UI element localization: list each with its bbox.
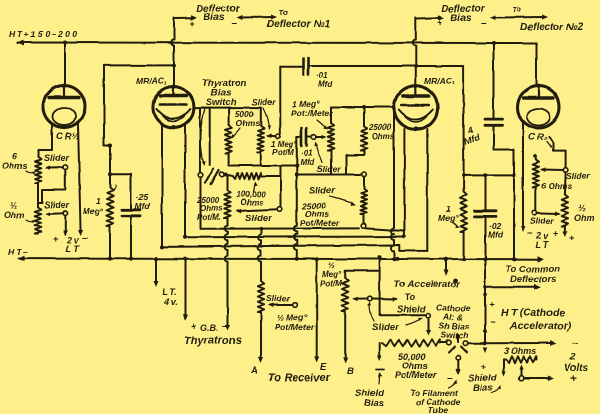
node HT junction 4Mfd bbox=[492, 41, 496, 45]
svg-text:Bias: Bias bbox=[450, 13, 472, 24]
wire to shield arrow bbox=[372, 297, 398, 302]
label Switch bbox=[204, 97, 237, 108]
wire HT+ supply rail bbox=[17, 40, 537, 46]
wire tube1 grid out bbox=[194, 108, 210, 165]
resistor 1 Meg Pot/M bbox=[258, 108, 264, 166]
label + bias2 bbox=[437, 18, 442, 28]
wire B branch bbox=[345, 271, 379, 278]
resistor 1 Meg Pot/Meter bbox=[328, 107, 334, 175]
svg-text:H T + 1 5 0 – 2 0 0: H T + 1 5 0 – 2 0 0 bbox=[9, 29, 77, 39]
wire CR2 heater jog bbox=[549, 137, 566, 168]
node 6ohm-r top bbox=[533, 154, 536, 157]
bus wire 1 bbox=[201, 228, 405, 231]
label half meg pot B bbox=[320, 261, 342, 288]
label B bbox=[347, 366, 354, 377]
label Slider B-pot bbox=[372, 322, 400, 333]
wire GB+ tap bbox=[183, 257, 188, 320]
svg-text:To Accelerator: To Accelerator bbox=[394, 279, 461, 290]
wire 3ohm out arrow bbox=[524, 376, 554, 381]
label Thyratrons bbox=[184, 335, 241, 347]
wire cath switch bottom drop bbox=[456, 360, 461, 375]
svg-text:To: To bbox=[512, 5, 521, 14]
wire 296 column bbox=[294, 137, 299, 261]
label 4 Mfd bbox=[462, 125, 481, 147]
svg-text:MR/AC₁: MR/AC₁ bbox=[424, 76, 455, 86]
label Slider halfohm-right bbox=[530, 216, 554, 226]
bus wire 3 bbox=[162, 245, 427, 251]
svg-text:Bias: Bias bbox=[203, 13, 225, 24]
label + bias1 bbox=[190, 19, 195, 29]
label Shield Bias left bbox=[355, 388, 384, 409]
wire 100k right link bbox=[261, 166, 281, 176]
capacitor .01 Mfd second bbox=[297, 128, 307, 146]
node shelf-514 bbox=[512, 173, 516, 177]
svg-text:–: – bbox=[222, 321, 228, 332]
wire cath switch right link bbox=[468, 342, 485, 344]
label Bias 2 bbox=[450, 13, 472, 24]
label 5000 Ohms bbox=[235, 109, 260, 128]
wire E tap bbox=[314, 257, 319, 363]
svg-text:MR/AC₁: MR/AC₁ bbox=[136, 76, 167, 86]
label + shield bias bbox=[481, 362, 487, 373]
svg-text:+: + bbox=[569, 233, 575, 244]
terminal slider 6ohm left bbox=[63, 165, 68, 170]
node 1meg-r top bbox=[462, 173, 466, 177]
svg-text:–: – bbox=[572, 337, 578, 349]
capacitor 4 Mfd bbox=[485, 43, 515, 175]
svg-text:To Receiver: To Receiver bbox=[268, 372, 331, 384]
capacitor .01 Mfd top bbox=[280, 58, 308, 75]
label 3 Ohms bbox=[504, 346, 536, 356]
arrow shield bias label bbox=[378, 372, 382, 384]
terminal 25000pot wiper bbox=[278, 207, 283, 212]
label minus filament bbox=[447, 373, 453, 384]
label minus 2volts bbox=[572, 337, 578, 349]
terminal switch right bbox=[219, 172, 224, 177]
svg-text:Ohm: Ohm bbox=[574, 213, 595, 223]
switch blade thyratron bbox=[205, 169, 219, 185]
wire LT+ lead left bbox=[63, 215, 68, 236]
arrow 100k label bbox=[254, 181, 258, 192]
wire wiper drop 25000 pot bbox=[280, 166, 282, 207]
svg-text:Slider: Slider bbox=[44, 153, 70, 163]
resistor half Meg Pot/M B bbox=[342, 278, 348, 312]
terminal switch left bbox=[198, 173, 203, 178]
resistor 6 Ohms right bbox=[533, 156, 539, 187]
wire accelerator tap bbox=[444, 257, 449, 276]
arrow switch label bbox=[200, 108, 205, 166]
label Bias switch bbox=[211, 88, 231, 99]
arrow 485 below down bbox=[483, 348, 488, 354]
wire 25000b jog bbox=[346, 151, 364, 175]
label Slider A-pot bbox=[266, 293, 290, 303]
svg-text:G.B.: G.B. bbox=[200, 323, 219, 333]
node tube2 grid bus bbox=[392, 257, 396, 261]
svg-text:6 Ohms: 6 Ohms bbox=[541, 181, 572, 191]
svg-text:Slider: Slider bbox=[252, 97, 276, 107]
arrow 5000 label bbox=[232, 128, 240, 138]
svg-text:+: + bbox=[53, 234, 59, 245]
wire to deflector No1 arrow bbox=[236, 15, 277, 21]
svg-text:·01: ·01 bbox=[316, 71, 328, 80]
tube MR/AC1 first bbox=[153, 85, 194, 130]
resistor half Meg Pot/Meter A bbox=[258, 281, 264, 312]
resistor 5000 Ohms bbox=[225, 108, 231, 166]
label Slider pot2 bbox=[309, 185, 337, 196]
wire slider stem left bbox=[38, 170, 65, 204]
label To deflector1 bbox=[279, 8, 288, 17]
svg-text:Deflector №2: Deflector №2 bbox=[520, 22, 584, 33]
svg-text:To: To bbox=[405, 292, 416, 302]
label minus bias1 bbox=[231, 18, 237, 29]
wire grid bus tube2 bbox=[331, 105, 396, 109]
node 1meg top bbox=[108, 143, 112, 147]
label 6 Ohms left bbox=[2, 151, 36, 174]
wire B lead bbox=[343, 312, 348, 364]
svg-text:B: B bbox=[347, 366, 354, 377]
wire 1meg to bus bbox=[109, 226, 111, 259]
svg-text:E: E bbox=[320, 362, 327, 373]
label + 2volts bbox=[570, 373, 576, 385]
svg-text:·01: ·01 bbox=[301, 149, 313, 158]
wire LT 4v tap bbox=[154, 257, 159, 287]
bus wire main HT- bbox=[17, 256, 544, 262]
svg-text:Switch: Switch bbox=[441, 330, 468, 340]
label MR/AC1 second bbox=[424, 76, 455, 86]
svg-text:A: A bbox=[250, 365, 258, 376]
label .01 Mfd second bbox=[300, 149, 315, 167]
svg-text:½ Meg°: ½ Meg° bbox=[277, 312, 307, 322]
resistor 100000 Ohms bbox=[226, 173, 262, 179]
resistor 25000 pot/meter second bbox=[361, 177, 367, 224]
label Slider 6ohm-right bbox=[566, 171, 590, 181]
label CR2 bbox=[528, 132, 551, 147]
svg-text:Deflectors: Deflectors bbox=[510, 274, 556, 285]
capacitor .25 Mfd bbox=[122, 210, 141, 259]
terminal slider B-pot bbox=[368, 296, 373, 301]
arrow 1megpotmeter label bbox=[317, 120, 328, 130]
wire 2volts arrow bbox=[485, 340, 557, 346]
label Deflector No2 bbox=[520, 22, 584, 33]
svg-text:1: 1 bbox=[96, 196, 101, 206]
svg-text:Ohms: Ohms bbox=[236, 118, 260, 128]
wire CR1 heater lead to LT- bbox=[78, 124, 83, 236]
label half meg pot/meter A bbox=[275, 312, 314, 332]
terminal pot2 bottom bbox=[362, 224, 367, 229]
label To Receiver bbox=[268, 372, 331, 384]
svg-text:Meg°: Meg° bbox=[83, 206, 104, 216]
arrow slider-to-circleB bbox=[368, 302, 374, 322]
svg-text:Switch: Switch bbox=[204, 97, 237, 108]
svg-text:–: – bbox=[481, 18, 487, 29]
label -2v LT right bbox=[527, 228, 558, 250]
node bus joint 397 bbox=[395, 257, 399, 261]
wire deflector bias 2 vertical bbox=[413, 18, 416, 86]
label Bias 1 bbox=[203, 13, 225, 24]
wire 6ohm-r bottom bbox=[535, 187, 537, 210]
wire tube2 heater lead B bbox=[426, 129, 428, 251]
label To Filament bbox=[410, 388, 461, 415]
label To Accelerator bbox=[394, 279, 461, 290]
wire 3ohm wiper bbox=[519, 365, 523, 376]
label Slider cap01b bbox=[317, 164, 341, 174]
node switch right bbox=[224, 173, 228, 177]
svg-text:Ohm: Ohm bbox=[4, 210, 25, 220]
svg-text:+: + bbox=[190, 19, 195, 29]
svg-text:½: ½ bbox=[578, 203, 586, 213]
svg-text:Thyratrons: Thyratrons bbox=[184, 335, 241, 347]
label To deflector2 bbox=[512, 5, 521, 14]
svg-text:Pot/Meter: Pot/Meter bbox=[275, 322, 314, 332]
label + 485 bbox=[489, 300, 494, 310]
node 485 switch bbox=[483, 341, 487, 345]
svg-text:Slider: Slider bbox=[372, 322, 400, 333]
label 1/2 Ohm right bbox=[574, 203, 595, 223]
wire 50k left drop bbox=[376, 343, 384, 370]
terminal cath switch bottom bbox=[456, 355, 461, 360]
label Deflector bias 1 bbox=[196, 4, 240, 15]
label minus bias2 bbox=[481, 18, 487, 29]
arrow 485 up bbox=[483, 327, 488, 333]
svg-text:Pot/M: Pot/M bbox=[320, 279, 342, 288]
svg-text:Slider: Slider bbox=[317, 164, 341, 174]
label .02 Mfd bbox=[488, 221, 504, 240]
svg-text:C R₂: C R₂ bbox=[528, 132, 548, 143]
label 50000 pot/meter bbox=[395, 352, 437, 380]
label To Shield bbox=[397, 292, 426, 315]
svg-text:+: + bbox=[570, 373, 576, 385]
node tube1 leadB bus2 bbox=[183, 235, 187, 239]
label 2v LT left bbox=[66, 235, 80, 254]
label HT+150-200 bbox=[9, 29, 77, 39]
terminal slider halfohm left bbox=[63, 211, 68, 216]
wire CR1 cathode lead bbox=[38, 124, 52, 157]
svg-text:Bias: Bias bbox=[364, 398, 384, 409]
svg-text:2: 2 bbox=[569, 352, 576, 363]
label Slider 1megpot bbox=[252, 97, 276, 107]
terminal 3ohm wiper bbox=[519, 376, 524, 381]
wire cathode switch drop bbox=[426, 318, 431, 336]
wire common deflector 2nd arrow bbox=[483, 284, 541, 290]
svg-text:To: To bbox=[279, 8, 288, 17]
svg-text:L T.: L T. bbox=[162, 287, 177, 297]
wire 6ohm-halfohm join bbox=[37, 183, 39, 208]
capacitor .02 Mfd bbox=[475, 175, 497, 259]
svg-text:Mfd: Mfd bbox=[318, 80, 333, 89]
wire CR1 anode lead bbox=[64, 43, 66, 87]
svg-text:–: – bbox=[490, 317, 496, 328]
arrow shieldbias-to-plus bbox=[492, 386, 501, 394]
svg-text:Ohms: Ohms bbox=[241, 198, 264, 207]
resistor 3 ohms bbox=[506, 356, 536, 362]
node HT junction CR1 bbox=[63, 41, 67, 45]
wire grid feed horizontal bbox=[104, 64, 174, 66]
wire slider arm halfohm left bbox=[45, 212, 63, 216]
svg-text:–: – bbox=[231, 18, 237, 29]
svg-text:Pot/M.: Pot/M. bbox=[197, 213, 221, 222]
resistor 6 Ohms left bbox=[35, 157, 42, 183]
label Cathode switch bbox=[436, 303, 470, 340]
svg-text:Mfd: Mfd bbox=[135, 201, 151, 211]
label +GB- bbox=[191, 321, 228, 333]
label 1 Meg right bbox=[438, 204, 459, 223]
wire 25000pot wiper arm bbox=[236, 209, 278, 214]
svg-text:Ohms: Ohms bbox=[372, 132, 395, 141]
svg-text:Slider: Slider bbox=[266, 293, 290, 303]
svg-text:H T –: H T – bbox=[8, 247, 28, 257]
node bus2 right end bbox=[403, 235, 407, 239]
svg-text:Shield: Shield bbox=[397, 304, 426, 315]
wire 485 column bbox=[483, 257, 487, 343]
label Shield Bias right bbox=[468, 373, 497, 394]
label E bbox=[320, 362, 327, 373]
terminal slider 6ohm right bbox=[563, 168, 568, 173]
resistor 1 Meg right bbox=[460, 175, 466, 259]
svg-text:+: + bbox=[553, 228, 558, 238]
wire to deflector No2 arrow bbox=[490, 15, 548, 21]
resistor 1/2 Ohm left bbox=[35, 208, 42, 235]
svg-text:Slider: Slider bbox=[566, 171, 590, 181]
wire slider arm B-pot bbox=[352, 297, 368, 302]
terminal 1megpot wiper bbox=[276, 134, 281, 139]
label To Common Deflectors bbox=[505, 264, 560, 285]
label HT cathode accelerator bbox=[501, 307, 572, 332]
svg-text:Ohms: Ohms bbox=[2, 161, 28, 171]
label 100000 Ohms bbox=[237, 190, 266, 207]
svg-text:Tube: Tube bbox=[428, 405, 448, 414]
node tube1 leadA bus3 bbox=[160, 245, 164, 249]
wire 514 to bus bbox=[513, 175, 515, 259]
svg-text:+: + bbox=[481, 362, 487, 373]
wire deflector bias 2 left arrow bbox=[416, 15, 444, 20]
wire halfohm-r bottom bbox=[562, 226, 567, 237]
wire tube2 grid drop bbox=[391, 108, 394, 259]
tube MR/AC1 second bbox=[394, 84, 438, 131]
node accel star bbox=[453, 278, 458, 283]
wire slider arm 6ohm left bbox=[45, 166, 63, 170]
label LT 4v bbox=[162, 287, 178, 307]
svg-text:Mfd: Mfd bbox=[300, 158, 315, 167]
svg-text:Meg°: Meg° bbox=[438, 213, 459, 223]
svg-text:Pot/Meter: Pot/Meter bbox=[300, 218, 339, 228]
label 1 Meg Pot/Meter bbox=[291, 99, 333, 118]
svg-text:Slider: Slider bbox=[530, 216, 554, 226]
node shelf-cap02 bbox=[484, 173, 488, 177]
label Thyratron bbox=[202, 78, 247, 89]
bus wire 2 bbox=[185, 236, 404, 239]
terminal slider halfohm right bbox=[532, 211, 537, 216]
node 514 bus bbox=[512, 257, 516, 261]
label Slider 25000pot bbox=[245, 213, 273, 224]
terminal cath switch left bbox=[447, 340, 452, 345]
terminal pot2 top bbox=[362, 172, 367, 177]
label 25000 Ohms second bbox=[368, 123, 395, 141]
label Slider 6ohm-left bbox=[44, 153, 70, 163]
resistor 25000 Ohms second bbox=[361, 107, 367, 151]
switch blades cathode bbox=[449, 335, 467, 353]
label .25 Mfd bbox=[135, 192, 151, 211]
svg-text:+: + bbox=[437, 18, 442, 28]
arrow slider 1megpot bbox=[263, 108, 271, 130]
svg-text:+: + bbox=[191, 321, 196, 331]
node 1meg bus bbox=[108, 257, 112, 261]
svg-text:–: – bbox=[447, 373, 453, 384]
resistor 1/2 Ohm right bbox=[562, 172, 568, 226]
label .01 Mfd top bbox=[316, 71, 333, 89]
svg-text:½: ½ bbox=[10, 200, 18, 210]
label A bbox=[250, 365, 258, 376]
label + LT left bbox=[53, 234, 59, 245]
arrow slider-to-circleC bbox=[406, 317, 423, 325]
wire A lead bbox=[259, 312, 264, 363]
wire box left drop bbox=[199, 108, 201, 173]
wire HT corner to CR2 anode bbox=[536, 43, 538, 87]
wire cap01a to 1meg right bbox=[309, 64, 464, 175]
svg-text:Pot:/Meter: Pot:/Meter bbox=[291, 108, 333, 118]
label MR/AC1 first bbox=[136, 76, 167, 86]
svg-text:Slider: Slider bbox=[245, 213, 273, 224]
svg-text:Slider: Slider bbox=[309, 185, 337, 196]
svg-text:–: – bbox=[82, 233, 88, 244]
svg-text:+: + bbox=[489, 300, 494, 310]
wire 3ohm left drop bbox=[501, 360, 506, 377]
label CR1/2 bbox=[56, 131, 80, 142]
wire cap01a left drop bbox=[279, 67, 281, 134]
svg-text:4 v.: 4 v. bbox=[163, 297, 178, 307]
svg-text:L T: L T bbox=[66, 244, 80, 254]
wire cath switch left link bbox=[440, 342, 446, 344]
label 1/2 Ohm left bbox=[4, 200, 36, 223]
svg-text:Ohms: Ohms bbox=[200, 204, 223, 213]
wire 1megpot wiper arm bbox=[266, 134, 276, 139]
resistor 1 Meg left bbox=[107, 188, 113, 226]
terminal cathode switch feed bbox=[426, 314, 431, 319]
label Deflector No1 bbox=[267, 19, 331, 30]
terminal cath switch right bbox=[463, 341, 468, 346]
svg-text:Pot/Meter: Pot/Meter bbox=[395, 370, 437, 380]
wire cap25 branch bbox=[110, 174, 131, 209]
svg-text:L T: L T bbox=[535, 240, 549, 250]
terminal slider A-pot bbox=[293, 302, 298, 307]
label minus 485 bbox=[490, 317, 496, 328]
svg-text:Bias: Bias bbox=[473, 383, 493, 394]
arrow filament label bbox=[448, 379, 457, 388]
svg-text:Deflector №1: Deflector №1 bbox=[267, 19, 331, 30]
wire shelf 175 right bbox=[464, 174, 514, 176]
label 1 Meg Pot/M bbox=[271, 140, 298, 157]
tube CR1/2 bbox=[43, 84, 85, 130]
wire A tap bbox=[258, 227, 263, 281]
wire slider arm A-pot bbox=[268, 302, 293, 307]
wire shelf 174 bbox=[297, 174, 362, 176]
label Slider halfohm-left bbox=[44, 200, 70, 210]
wire 25000pot to GB minus bbox=[225, 219, 231, 332]
node cap25 tap bbox=[108, 172, 112, 176]
wire CR2 cathode lead bbox=[521, 121, 526, 232]
svg-text:H T (Cathode: H T (Cathode bbox=[501, 307, 565, 319]
arrow 485 down bbox=[483, 294, 488, 300]
wire deflector bias 1 left arrow bbox=[174, 15, 197, 20]
terminal cap01b wiper bbox=[311, 135, 316, 140]
svg-text:Pot/M: Pot/M bbox=[272, 148, 294, 157]
label 25000 Pot/M bbox=[196, 196, 223, 222]
label HT- bbox=[8, 247, 28, 257]
wire tube1 heater lead A bbox=[161, 126, 163, 247]
node grid feed bbox=[172, 63, 176, 67]
wire deflector bias 1 vertical bbox=[171, 18, 174, 86]
label + LT right bbox=[569, 233, 575, 244]
label 6 Ohms right bbox=[541, 181, 572, 191]
